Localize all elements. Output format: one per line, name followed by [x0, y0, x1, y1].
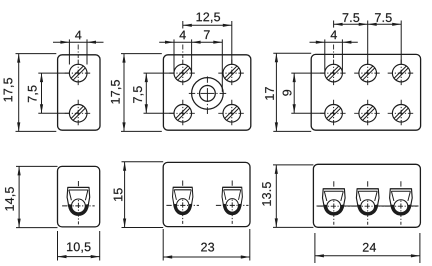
screw B3: [169, 100, 196, 127]
centre bush crosshair: [189, 76, 226, 114]
dim 4 dimension line + arrows: [53, 41, 104, 44]
dim 7,5 dimension line + arrows: [40, 73, 43, 113]
dim 7,5 label (middle): [133, 86, 143, 103]
terminal T6: [385, 181, 418, 224]
dim 7 label: [204, 30, 210, 39]
dim 7.5/7.5 extension lines: [334, 21, 402, 65]
screw A1 centre line up: [77, 45, 79, 59]
screw A2: [65, 100, 92, 127]
dim 7 extension line: [221, 39, 223, 91]
dim 13.5 label: [262, 182, 271, 205]
dim 17 dimension line + arrows: [275, 53, 278, 131]
top view 2-pole: body outline: [163, 55, 250, 130]
dim 4 label (middle): [180, 31, 186, 40]
dim 17 extension lines: [273, 53, 311, 131]
terminal T1: [62, 181, 95, 224]
dim 10,5 extension lines: [58, 231, 100, 261]
dim 9 label: [283, 90, 292, 96]
terminal T2: [166, 181, 199, 224]
dim 14,5 label: [5, 187, 15, 210]
front view 1-pole: body outline: [58, 166, 100, 227]
terminal T4: [318, 181, 351, 224]
dim 12,5 label: [197, 12, 220, 22]
dim 15 label: [114, 188, 123, 201]
dim 23 extension lines: [163, 229, 250, 261]
screw C1: [320, 60, 347, 87]
dim 14,5 extension lines: [16, 166, 58, 227]
dim 17,5 label: [4, 78, 14, 101]
top view 1-pole: body outline: [58, 55, 100, 130]
dim 17,5 dimension line + arrows: [17, 54, 20, 132]
centre bush outer circle: [192, 78, 224, 110]
dim 10,5 dimension line + arrows: [58, 255, 100, 258]
dim 14,5 dimension line + arrows: [18, 166, 21, 227]
dim 4 label (right): [331, 30, 337, 39]
dim 17 label: [265, 87, 274, 100]
dim 13.5 extension lines: [273, 165, 313, 228]
front view 3-pole: body outline: [313, 164, 420, 227]
screw C1 centre line up: [333, 45, 335, 59]
dim 24 dimension line + arrows: [315, 254, 420, 257]
terminal T5: [351, 181, 384, 224]
screw C2: [354, 60, 381, 87]
terminal T3: [216, 181, 249, 224]
screw C3: [388, 60, 415, 87]
dim 7.5 label right: [375, 13, 392, 22]
screw B4: [218, 100, 245, 127]
dim 4 dimension line + arrows (right): [310, 41, 358, 44]
dim 4 extension lines (middle): [174, 39, 192, 71]
dim 7,5 extension lines: [38, 73, 69, 113]
dim 7.5/7.5 dimension line + arrows: [334, 23, 402, 26]
screw C6: [388, 100, 415, 127]
screw B1 centre line up: [182, 45, 184, 59]
dim 4 extension lines: [69, 39, 87, 64]
dim 7,5 extension lines (middle): [144, 73, 175, 113]
screw B1: [169, 60, 196, 87]
dim 9 dimension line + arrows: [293, 73, 296, 113]
dim 12,5 dimension line + arrows: [183, 24, 232, 27]
dim 13.5 dimension line + arrows: [275, 165, 278, 228]
dim 12,5 extension lines: [183, 21, 232, 64]
terminal row centre line: [317, 205, 419, 207]
dim 4 label: [75, 31, 81, 40]
dim 9 extension lines: [291, 73, 324, 113]
dim 24 extension lines: [315, 233, 420, 263]
top view 3-pole: body outline: [311, 54, 420, 130]
dim 10,5 label: [67, 242, 90, 252]
front view 2-pole: body outline: [163, 162, 250, 226]
dim 17,5 extension lines (middle): [121, 54, 162, 132]
dim 7.5 label left: [343, 13, 360, 22]
dim 17,5 extension lines: [16, 54, 57, 132]
dim 4 extension lines (right): [325, 39, 343, 71]
screw C5: [354, 100, 381, 127]
dims 4 and 7 dimension line + arrows: [159, 41, 222, 44]
screw A1: [65, 60, 92, 87]
dim 7,5 label: [28, 86, 38, 103]
screw C4: [320, 100, 347, 127]
dim 23 dimension line + arrows: [163, 255, 250, 258]
dim 17,5 label (middle): [111, 80, 121, 103]
dim 23 label: [201, 243, 214, 252]
dim 15 extension lines: [122, 162, 164, 228]
screw B2: [218, 60, 245, 87]
dim 24 label: [363, 243, 376, 252]
dim 7,5 dimension line + arrows (middle): [145, 73, 148, 113]
dim 15 dimension line + arrows: [123, 162, 126, 228]
centre bush inner circle: [200, 86, 216, 102]
dim 17,5 dimension line + arrows (middle): [122, 54, 125, 132]
